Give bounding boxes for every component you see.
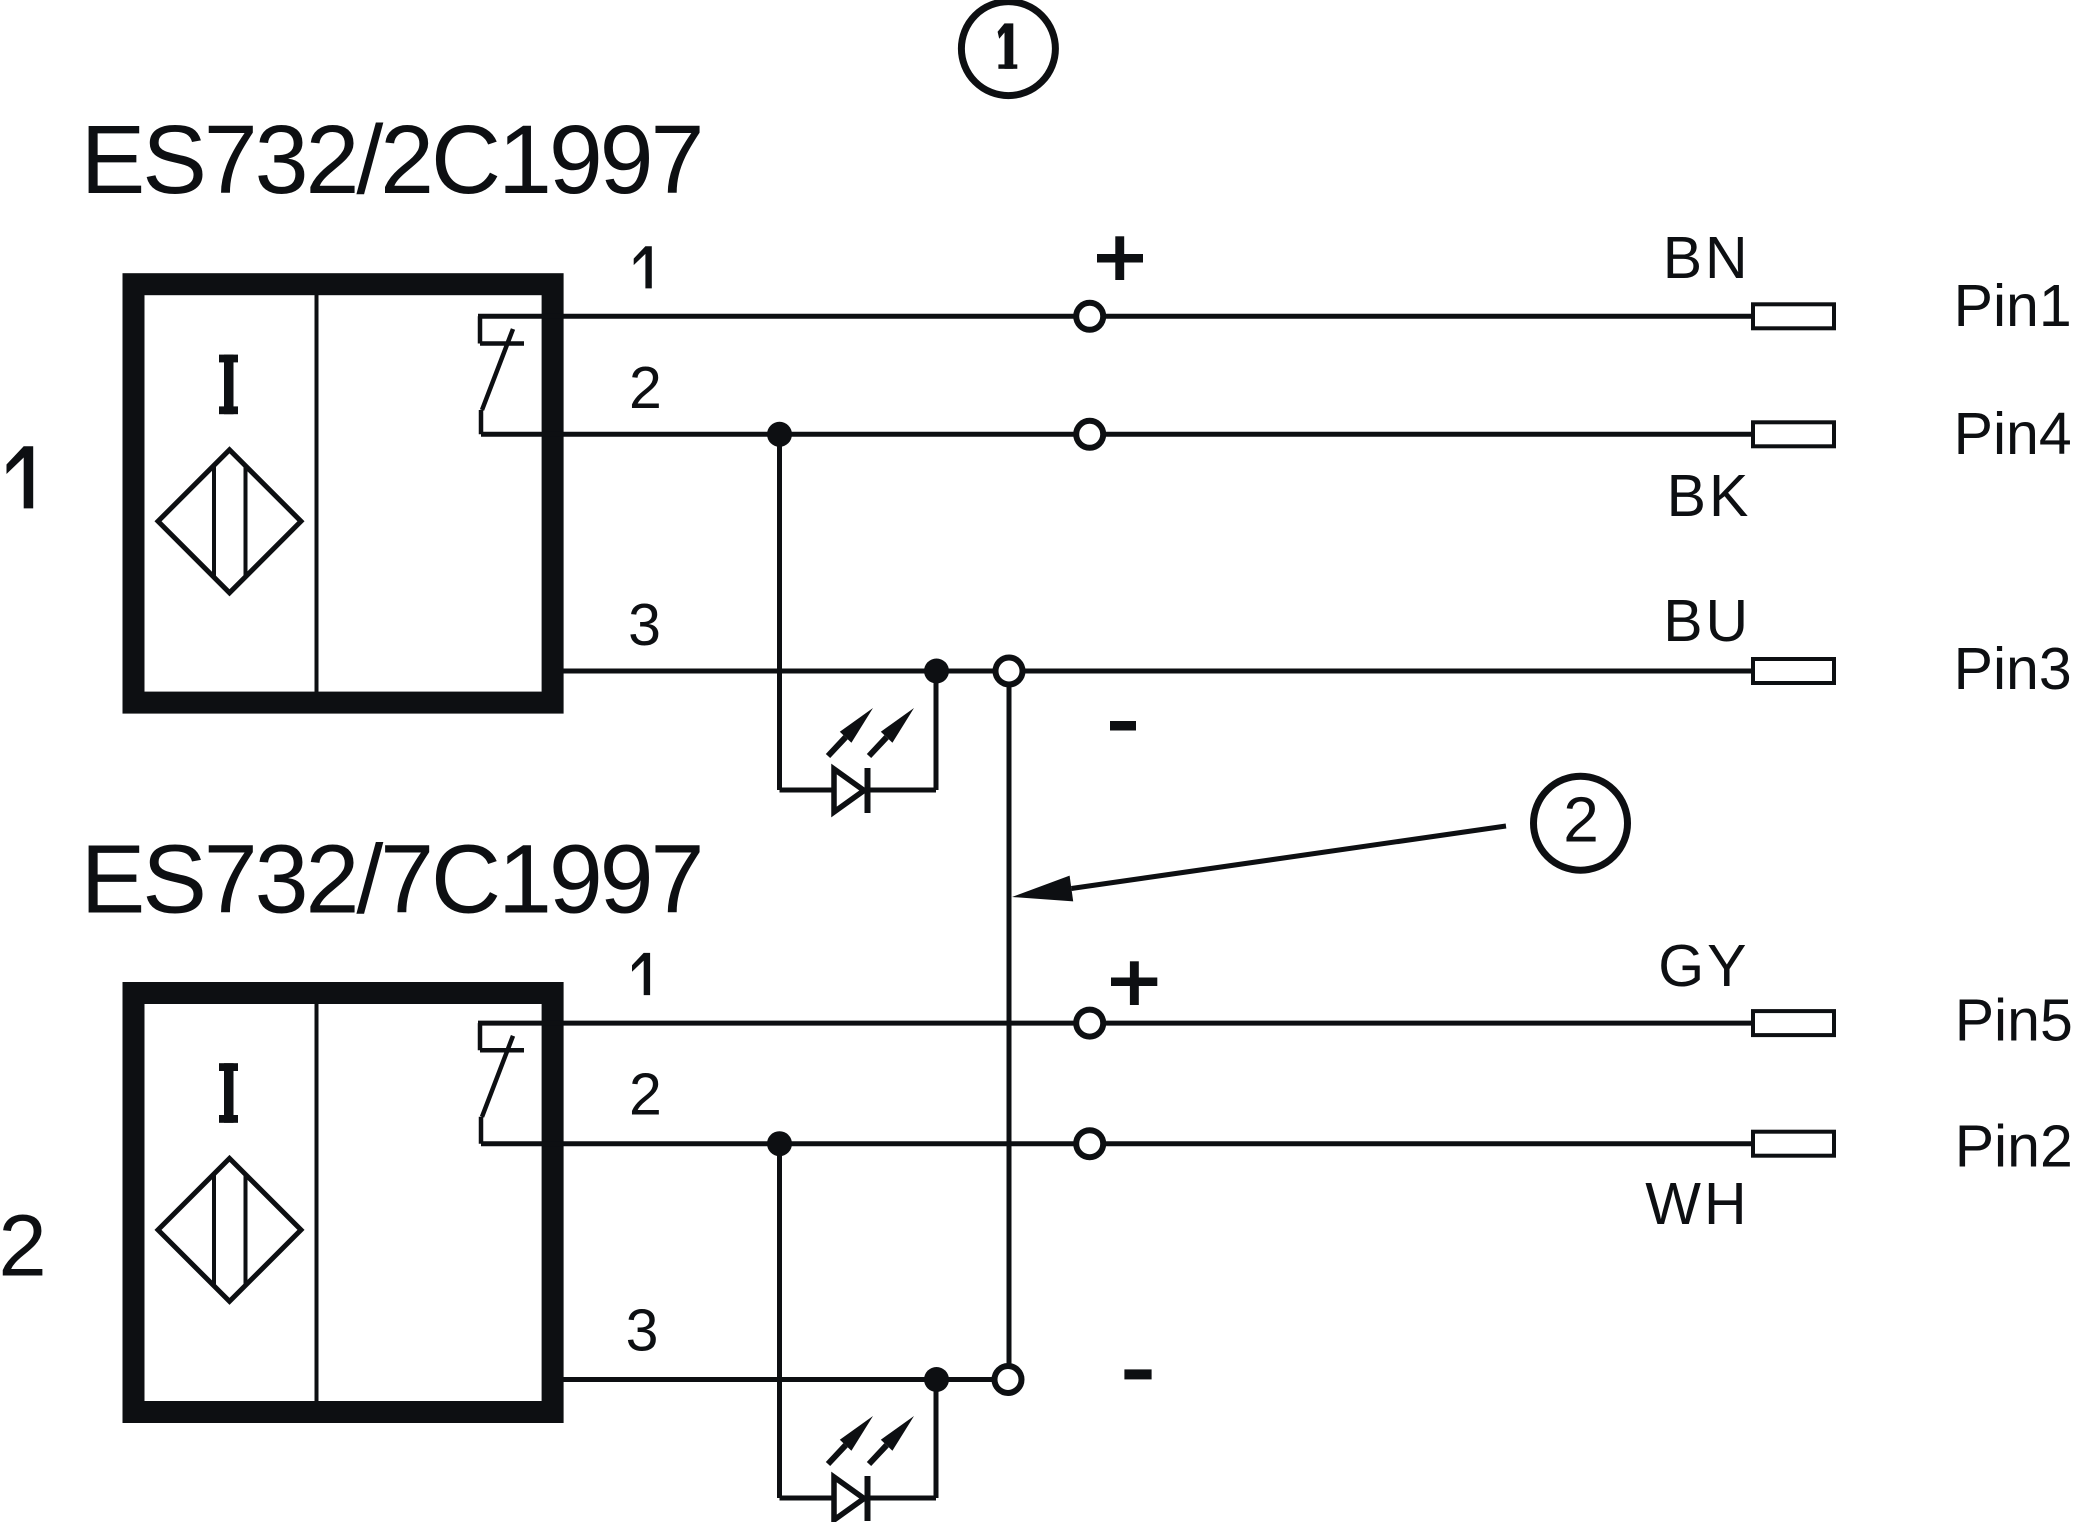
callout circle 2 xyxy=(1534,776,1628,870)
sensor S2 box xyxy=(134,993,553,1412)
S2 NC switch contact xyxy=(480,1023,524,1144)
svg-text:GY: GY xyxy=(1658,933,1749,999)
wire S2 pin1 (GY) xyxy=(478,1021,1753,1026)
wire LED1 cathode rise xyxy=(934,671,939,790)
minus rail (common) xyxy=(1007,687,1012,1364)
connector ferrule S1 wire1 xyxy=(1753,304,1834,328)
svg-text:BU: BU xyxy=(1663,588,1751,654)
wire S1 pin3 (BU) xyxy=(555,669,1753,674)
connector ferrule S1 wire2 xyxy=(1753,422,1834,446)
LED1 emission arrow b xyxy=(869,708,914,756)
wire LED2 bottom xyxy=(780,1496,937,1501)
LED2 diode xyxy=(834,1476,868,1521)
S1 inductive sensor diamond xyxy=(158,450,301,593)
S2 compartment divider xyxy=(315,1004,319,1401)
terminal circle S2 wire2 xyxy=(1076,1130,1103,1157)
svg-text:Pin5: Pin5 xyxy=(1955,987,2073,1053)
minus sign circuit 2 xyxy=(1124,1369,1151,1379)
LED1 emission arrow a xyxy=(828,708,873,756)
svg-text:Pin2: Pin2 xyxy=(1955,1114,2073,1180)
LED2 emission arrow b xyxy=(869,1416,914,1464)
svg-text:2: 2 xyxy=(629,1061,662,1127)
svg-text:2: 2 xyxy=(1563,784,1599,856)
wire LED1 anode drop xyxy=(777,434,782,790)
wire S2 pin3 xyxy=(555,1377,1008,1382)
connector ferrule S2 wire1 xyxy=(1753,1011,1834,1035)
callout circle 1 xyxy=(961,2,1055,96)
S1 compartment divider xyxy=(315,295,319,692)
LED2 emission arrow a xyxy=(828,1416,873,1464)
wire LED2 cathode rise xyxy=(934,1380,939,1499)
pin number 1 (S2) xyxy=(632,953,650,995)
wire S1 pin2 (BK) xyxy=(481,432,1753,437)
svg-text:3: 3 xyxy=(628,592,661,658)
junction dot S1 wire3 xyxy=(924,659,949,684)
svg-text:BK: BK xyxy=(1667,463,1752,529)
LED1 diode xyxy=(834,768,868,813)
S2 inductive sensor diamond xyxy=(158,1158,301,1301)
svg-text:WH: WH xyxy=(1645,1171,1749,1237)
svg-text:ES732/2C1997: ES732/2C1997 xyxy=(81,105,702,214)
pin number 1 (S1) xyxy=(634,246,652,288)
plus sign circuit 2 xyxy=(1111,961,1157,1005)
S2 current symbol I xyxy=(219,1063,238,1123)
svg-text:ES732/7C1997: ES732/7C1997 xyxy=(81,825,702,934)
callout 2 leader line xyxy=(1071,826,1506,889)
wire LED2 anode drop xyxy=(777,1144,782,1498)
sensor S1 box xyxy=(134,284,553,702)
wire S1 pin1 (BN) xyxy=(478,314,1753,319)
svg-text:Pin4: Pin4 xyxy=(1954,401,2072,467)
svg-text:Pin3: Pin3 xyxy=(1954,636,2072,702)
connector ferrule S1 wire3 xyxy=(1753,659,1834,683)
terminal circle S1 wire2 xyxy=(1076,421,1103,448)
junction dot S2 wire3 xyxy=(924,1367,949,1392)
svg-text:2: 2 xyxy=(629,355,662,421)
connector ferrule S2 wire2 xyxy=(1753,1132,1834,1156)
minus sign circuit 1 xyxy=(1110,721,1136,731)
terminal circle S2 wire3 xyxy=(995,1366,1022,1393)
svg-text:3: 3 xyxy=(626,1298,659,1364)
junction dot S1 wire2 xyxy=(767,422,792,447)
sensor 1 index label 1 xyxy=(7,446,34,508)
S1 NC switch contact xyxy=(480,316,524,434)
svg-text:BN: BN xyxy=(1663,225,1751,291)
svg-text:2: 2 xyxy=(0,1198,47,1295)
wire S2 pin2 (WH) xyxy=(481,1141,1753,1146)
callout 2 arrowhead xyxy=(1012,876,1073,902)
terminal circle S2 wire1 xyxy=(1076,1010,1103,1037)
S1 current symbol I xyxy=(219,355,238,415)
terminal circle S1 wire3 xyxy=(996,658,1023,685)
terminal circle S1 wire1 xyxy=(1076,303,1103,330)
junction dot S2 wire2 xyxy=(767,1131,792,1156)
svg-text:Pin1: Pin1 xyxy=(1954,273,2072,339)
wire LED1 bottom xyxy=(780,788,937,793)
plus sign circuit 1 xyxy=(1097,236,1143,280)
